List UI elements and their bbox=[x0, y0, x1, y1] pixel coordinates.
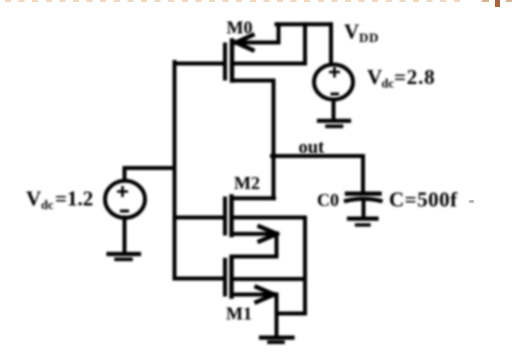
svg-text:M2: M2 bbox=[234, 173, 260, 193]
svg-text:dc: dc bbox=[382, 77, 395, 91]
svg-text:DD: DD bbox=[359, 30, 379, 45]
svg-text:C0: C0 bbox=[317, 190, 339, 210]
svg-text:V: V bbox=[367, 65, 382, 89]
svg-text:V: V bbox=[26, 187, 41, 211]
svg-text:M1: M1 bbox=[226, 304, 252, 324]
svg-text:V: V bbox=[344, 20, 359, 44]
svg-text:=2.8: =2.8 bbox=[394, 65, 435, 89]
svg-text:C=500f: C=500f bbox=[389, 188, 458, 212]
svg-text:M0: M0 bbox=[227, 18, 253, 38]
svg-text:dc: dc bbox=[41, 198, 54, 212]
svg-text:out: out bbox=[299, 138, 326, 158]
svg-text:=1.2: =1.2 bbox=[55, 187, 93, 211]
